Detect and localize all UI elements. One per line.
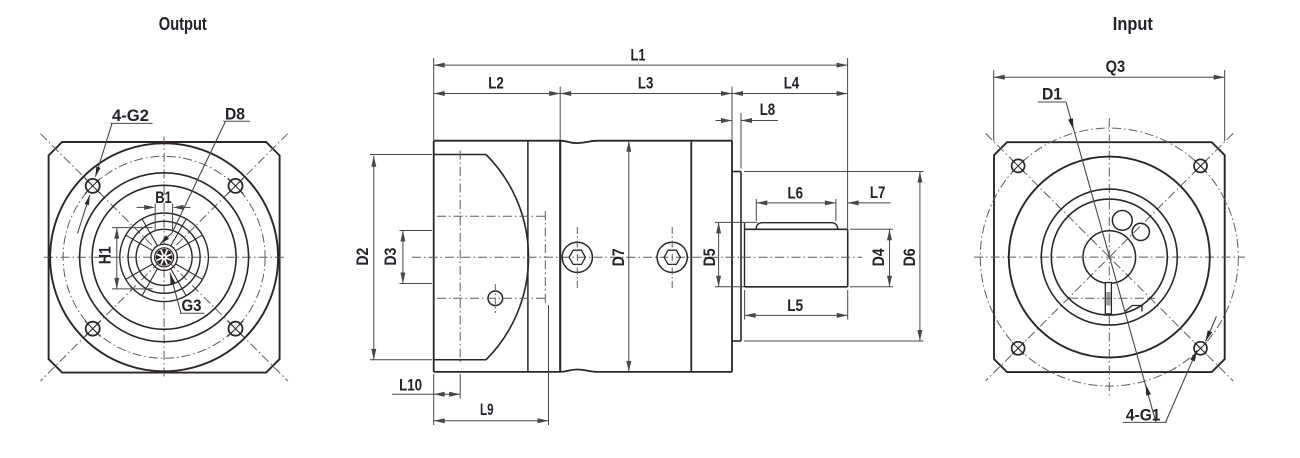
svg-text:L5: L5 [787,297,803,315]
svg-text:Q3: Q3 [1106,58,1126,76]
svg-text:D1: D1 [1042,85,1062,103]
svg-text:D2: D2 [354,248,372,266]
svg-text:Input: Input [1113,14,1153,34]
svg-text:H1: H1 [96,246,114,264]
svg-text:L3: L3 [638,74,654,92]
svg-text:B1: B1 [155,189,172,207]
svg-text:D5: D5 [701,248,719,266]
svg-text:D8: D8 [225,105,245,123]
svg-text:Output: Output [159,14,207,34]
svg-text:D7: D7 [610,248,628,266]
svg-text:G3: G3 [182,297,202,315]
svg-text:D6: D6 [901,248,919,266]
svg-text:L1: L1 [631,47,646,65]
svg-text:4-G2: 4-G2 [112,107,149,125]
svg-text:L7: L7 [870,184,886,202]
svg-text:L4: L4 [784,74,800,92]
svg-text:L10: L10 [399,377,422,395]
svg-text:D3: D3 [382,248,400,266]
svg-text:D4: D4 [870,248,888,267]
svg-text:L9: L9 [480,401,494,419]
svg-text:L8: L8 [760,101,776,119]
svg-text:4-G1: 4-G1 [1126,406,1161,424]
svg-text:L2: L2 [488,74,504,92]
svg-text:L6: L6 [788,184,804,202]
